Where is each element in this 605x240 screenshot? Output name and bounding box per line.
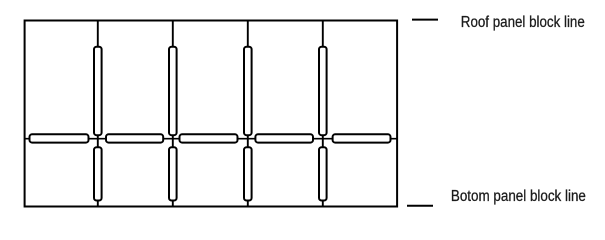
roof panel R1 xyxy=(94,47,102,136)
wire: roof drop 2 (top edge to roof panel R2) xyxy=(172,21,174,49)
wire: roof drop 3 (top edge to roof panel R3) xyxy=(247,21,249,49)
bottom panel B1 xyxy=(94,147,102,200)
svg-text:Roof panel block line: Roof panel block line xyxy=(461,14,585,31)
wire: junction J1 stub (R1 to B1 through bus) xyxy=(97,134,99,148)
roof panel R3 xyxy=(244,47,252,136)
legend mark: roof panel block line xyxy=(412,19,438,21)
middle panel M3 xyxy=(180,134,238,142)
wire: junction J2 stub (R2 to B2 through bus) xyxy=(172,134,174,148)
roof panel R2 xyxy=(169,47,177,136)
middle panel M1 xyxy=(30,134,89,142)
legend mark: bottom panel block line xyxy=(407,205,433,207)
wire: junction J4 stub (R4 to B4 through bus) xyxy=(322,134,324,148)
wire: junction J3 stub (R3 to B3 through bus) xyxy=(247,134,249,148)
panel block outline xyxy=(25,21,398,207)
middle panel M2 xyxy=(106,134,163,142)
wire: bottom drop 4 (bottom panel B4 to bottom edge) xyxy=(322,200,324,207)
wire: roof drop 1 (top edge to roof panel R1) xyxy=(97,21,99,49)
bottom panel B3 xyxy=(244,147,252,200)
label: Botom panel block line xyxy=(451,188,586,205)
svg-text:Botom panel block line: Botom panel block line xyxy=(451,188,586,205)
middle panel M5 xyxy=(333,134,391,142)
bottom panel B4 xyxy=(319,147,327,200)
wire: bottom drop 3 (bottom panel B3 to bottom edge) xyxy=(247,200,249,207)
wire: bottom drop 2 (bottom panel B2 to bottom edge) xyxy=(172,200,174,207)
wire: middle panel bus line xyxy=(25,138,398,140)
bottom panel B2 xyxy=(169,147,177,200)
middle panel M4 xyxy=(255,134,313,142)
wire: roof drop 4 (top edge to roof panel R4) xyxy=(322,21,324,49)
label: Roof panel block line xyxy=(461,14,585,31)
roof panel R4 xyxy=(319,47,327,136)
wire: bottom drop 1 (bottom panel B1 to bottom edge) xyxy=(97,200,99,207)
